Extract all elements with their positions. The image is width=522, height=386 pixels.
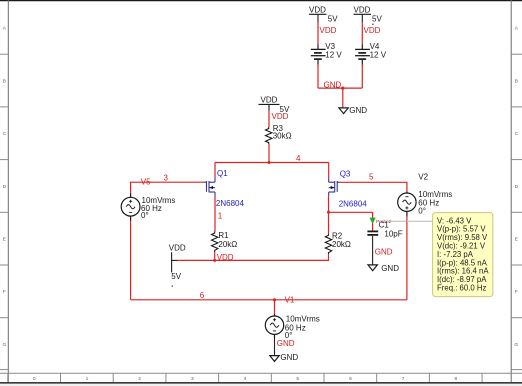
source V5 [121,194,140,221]
ground (top) [339,108,348,114]
source V2 [398,192,416,217]
wire VDD to V4 [361,22,363,44]
svg-text:C: C [3,131,7,137]
border frame outer lines [0,0,522,2]
svg-text:10pF: 10pF [384,229,402,238]
transistor Q3 2N6804 [329,179,341,197]
svg-text:30kΩ: 30kΩ [273,132,292,141]
capacitor C1 [367,231,378,235]
svg-text:Q1: Q1 [217,169,228,178]
svg-text:V4: V4 [370,42,380,51]
wire V3 to gnd rail [317,65,319,89]
callout line probe to readout [389,220,433,222]
svg-text:20kΩ: 20kΩ [332,240,351,249]
svg-text:VDD: VDD [364,26,381,35]
ground (C1) [368,265,377,271]
border zone letters left [3,26,7,348]
stray dot mark [372,24,373,25]
svg-text:GND: GND [280,353,298,362]
wire R3 to node 4 [268,144,270,162]
margin below sheet [0,384,522,386]
probe readout box [433,213,493,297]
svg-text:0°: 0° [418,207,426,216]
wire VDD rail horizontal [178,259,329,261]
svg-text:4: 4 [244,376,247,382]
svg-text:5V: 5V [372,14,382,23]
border row dividers right column [511,54,522,369]
junction V1 top [273,298,276,301]
svg-text:B: B [515,78,518,84]
ground (V1) [270,356,279,362]
svg-text:0°: 0° [141,211,149,220]
svg-text:0: 0 [33,376,36,382]
wire node 6 [131,299,407,301]
svg-text:7: 7 [402,376,405,382]
wire C1 to ground [372,236,374,265]
resistor R1 [212,232,218,253]
wire node6 to V1 [274,300,276,314]
svg-text:5: 5 [369,172,374,181]
svg-text:V5: V5 [141,177,151,186]
svg-text:VDD: VDD [169,243,186,252]
svg-text:1: 1 [86,376,89,382]
svg-text:V1: V1 [285,296,295,305]
border bottom edge line [0,382,522,384]
wire gnd rail horizontal [318,87,362,89]
svg-text:B: B [3,78,6,84]
junction R2 top / C1 branch [327,211,330,214]
border number strip lines [0,373,522,382]
border row dividers left column [0,54,8,369]
svg-text:C: C [515,131,519,137]
resistor R2 [325,234,331,255]
border zone numbers [33,376,458,382]
svg-text:C1: C1 [379,221,390,230]
svg-text:GND: GND [324,80,342,89]
svg-text:Q3: Q3 [340,169,351,178]
svg-text:D: D [3,184,7,190]
svg-text:VDD: VDD [320,26,337,35]
wire node 4 [215,162,329,164]
svg-text:Freq.: 60.0 Hz: Freq.: 60.0 Hz [437,284,487,293]
power symbol VDD (rotated, left) [172,252,178,272]
wire R2 to VDD rail corner [328,254,330,261]
border zone letters right [514,26,518,348]
wire node4 to Q1 drain [214,163,216,179]
svg-text:GND: GND [349,106,367,115]
svg-text:F: F [3,289,6,295]
wire Q3 source down [328,196,330,234]
svg-text:2: 2 [138,376,141,382]
svg-text:G: G [3,342,7,348]
svg-text:D: D [515,184,519,190]
svg-text:V2: V2 [418,172,428,181]
wire Q1 source to R1 [214,196,216,232]
wire junction to ground symbol [342,88,344,108]
wire V1 to ground [274,338,276,355]
svg-text:8: 8 [454,376,457,382]
svg-text:3: 3 [164,173,169,182]
power symbol VDD (right, above V4) [354,14,372,22]
svg-text:6: 6 [200,291,205,300]
junction top gnd [341,87,344,90]
wire VDD to V3 [317,22,319,44]
svg-text:5V: 5V [171,272,181,281]
svg-text:E: E [3,237,6,243]
battery V3 [311,44,326,64]
svg-text:R1: R1 [218,231,229,240]
svg-text:R2: R2 [332,231,343,240]
resistor R3 [266,127,272,144]
svg-text:6: 6 [349,376,352,382]
svg-text:GND: GND [375,247,393,256]
transistor Q1 2N6804 [204,179,216,197]
svg-text:1: 1 [218,212,223,221]
arrow Q1 [210,186,214,189]
wire Q3 gate to V2 [340,182,407,191]
wire node4 to Q3 drain [328,163,330,179]
wire Q3 source to C1 [329,212,373,231]
svg-text:3: 3 [191,376,194,382]
svg-text:GND: GND [381,264,399,273]
svg-text:2N6804: 2N6804 [339,200,368,209]
junction node 4 [268,161,271,164]
wire V5 to Q1 gate [131,182,204,193]
svg-text:12 V: 12 V [325,51,342,60]
svg-text:GND: GND [277,339,295,348]
wire VDD to R3 [268,111,270,128]
source V1 [265,314,283,338]
svg-text:20kΩ: 20kΩ [218,240,237,249]
svg-text:E: E [515,237,518,243]
svg-text:10mVrms: 10mVrms [286,315,320,324]
svg-text:12 V: 12 V [370,51,387,60]
arrow Q3 [331,186,335,189]
wire R1 to VDD rail [214,252,216,260]
svg-text:4: 4 [296,154,301,163]
svg-text:2N6804: 2N6804 [216,199,245,208]
power symbol VDD (left, above V3) [309,14,327,22]
svg-text:F: F [515,289,518,295]
junction R1 bottom [213,259,216,262]
svg-text:V3: V3 [325,42,335,51]
battery V4 [355,44,370,64]
wire V2 to node 6 [406,217,408,300]
svg-text:VDD: VDD [309,5,326,14]
stray dot mark 2 [172,285,173,286]
wire V4 to gnd rail [361,65,363,89]
svg-text:VDD: VDD [272,112,289,121]
power symbol VDD (above R3) [259,104,280,110]
svg-text:G: G [514,342,518,348]
svg-text:VDD: VDD [354,5,371,14]
svg-text:5V: 5V [328,14,338,23]
probe Probe2 arrow [370,218,376,224]
svg-text:VDD: VDD [261,95,278,104]
wire V5 to node 6 [130,221,132,300]
svg-text:5: 5 [296,376,299,382]
probe readout text [437,216,489,292]
